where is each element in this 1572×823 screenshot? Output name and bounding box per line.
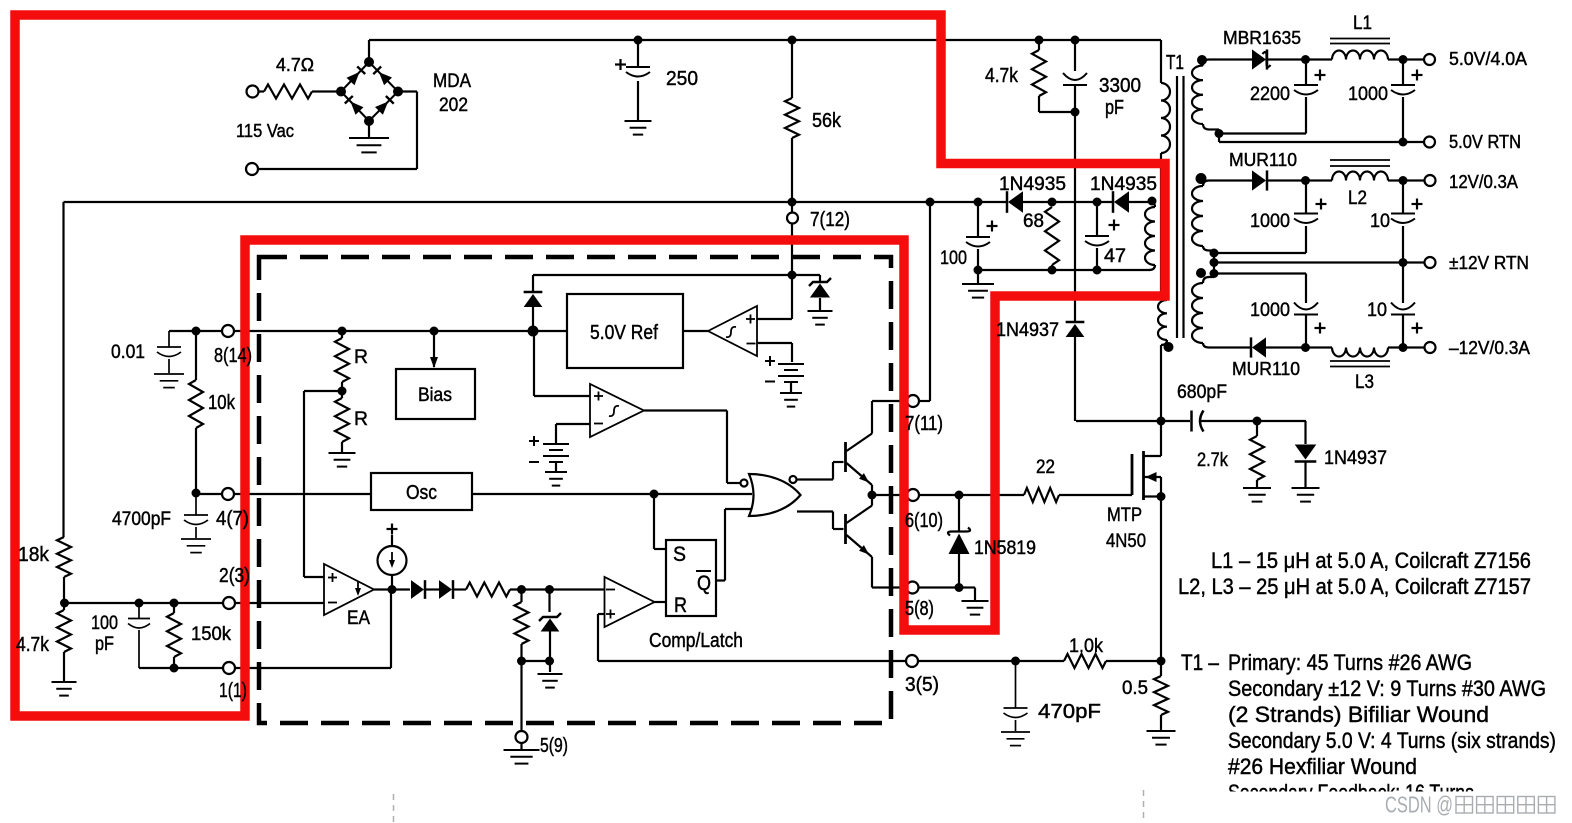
svg-text:2200: 2200 bbox=[1250, 84, 1290, 105]
svg-text:10: 10 bbox=[1370, 211, 1390, 232]
svg-text:MBR1635: MBR1635 bbox=[1223, 28, 1301, 48]
svg-text:0.5: 0.5 bbox=[1122, 678, 1148, 699]
svg-text:250: 250 bbox=[666, 68, 698, 90]
svg-text:1000: 1000 bbox=[1250, 300, 1290, 321]
svg-text:115 Vac: 115 Vac bbox=[236, 121, 294, 141]
svg-text:1N4937: 1N4937 bbox=[996, 320, 1059, 341]
svg-text:100: 100 bbox=[940, 248, 967, 269]
svg-text:4(7): 4(7) bbox=[216, 508, 249, 530]
svg-text:5.0V Ref: 5.0V Ref bbox=[590, 322, 658, 344]
svg-text:4700pF: 4700pF bbox=[112, 509, 171, 530]
svg-text:8(14): 8(14) bbox=[214, 345, 252, 367]
svg-text:CSDN @: CSDN @ bbox=[1385, 792, 1453, 818]
svg-text:1000: 1000 bbox=[1348, 84, 1388, 105]
svg-text:18k: 18k bbox=[18, 544, 50, 566]
svg-text:22: 22 bbox=[1036, 457, 1055, 478]
svg-text:Osc: Osc bbox=[406, 482, 437, 504]
svg-text:7(11): 7(11) bbox=[905, 413, 943, 435]
svg-text:56k: 56k bbox=[812, 110, 842, 132]
svg-text:5(8): 5(8) bbox=[905, 598, 934, 620]
svg-text:150k: 150k bbox=[191, 624, 231, 645]
svg-text:MUR110: MUR110 bbox=[1232, 359, 1300, 379]
svg-text:10k: 10k bbox=[208, 392, 236, 414]
svg-text:68: 68 bbox=[1023, 211, 1044, 232]
svg-text:(2 Strands) Bifiliar Wound: (2 Strands) Bifiliar Wound bbox=[1228, 702, 1489, 727]
svg-text:6(10): 6(10) bbox=[905, 510, 943, 532]
svg-text:Primary: 45 Turns #26 AWG: Primary: 45 Turns #26 AWG bbox=[1228, 650, 1472, 675]
svg-text:1(1): 1(1) bbox=[219, 680, 247, 702]
svg-text:1000: 1000 bbox=[1250, 211, 1290, 232]
svg-text:47: 47 bbox=[1104, 246, 1126, 267]
svg-text:Comp/Latch: Comp/Latch bbox=[649, 630, 743, 652]
svg-text:3(5): 3(5) bbox=[905, 674, 939, 696]
svg-text:Q: Q bbox=[697, 572, 711, 595]
svg-text:R: R bbox=[354, 347, 368, 368]
svg-text:EA: EA bbox=[347, 608, 370, 629]
svg-text:7(12): 7(12) bbox=[810, 209, 850, 231]
svg-text:470pF: 470pF bbox=[1038, 701, 1101, 723]
svg-text:Secondary 5.0 V: 4 Turns (six: Secondary 5.0 V: 4 Turns (six strands) bbox=[1228, 728, 1556, 753]
svg-text:L3: L3 bbox=[1355, 372, 1374, 393]
svg-text:4N50: 4N50 bbox=[1106, 531, 1146, 552]
svg-text:0.01: 0.01 bbox=[111, 342, 145, 363]
svg-text:5.0V RTN: 5.0V RTN bbox=[1449, 132, 1521, 152]
svg-text:L1 – 15 μH at 5.0 A, Coilcraf: L1 – 15 μH at 5.0 A, Coilcraft Z7156 bbox=[1211, 548, 1531, 573]
svg-text:–12V/0.3A: –12V/0.3A bbox=[1449, 338, 1530, 358]
svg-text:pF: pF bbox=[1105, 97, 1124, 119]
svg-text:±12V RTN: ±12V RTN bbox=[1449, 253, 1529, 273]
svg-text:#26 Hexfiliar Wound: #26 Hexfiliar Wound bbox=[1228, 754, 1417, 779]
svg-text:10: 10 bbox=[1367, 300, 1387, 321]
svg-text:4.7Ω: 4.7Ω bbox=[276, 55, 314, 75]
svg-text:S: S bbox=[673, 543, 686, 566]
svg-text:5(9): 5(9) bbox=[540, 735, 568, 757]
svg-text:R: R bbox=[354, 409, 368, 430]
svg-text:MTP: MTP bbox=[1107, 505, 1142, 526]
svg-text:1.0k: 1.0k bbox=[1069, 636, 1103, 657]
svg-text:1N4935: 1N4935 bbox=[1090, 174, 1157, 195]
svg-text:T1: T1 bbox=[1166, 52, 1184, 74]
svg-text:202: 202 bbox=[439, 95, 468, 116]
svg-text:680pF: 680pF bbox=[1177, 382, 1227, 403]
svg-text:pF: pF bbox=[95, 634, 114, 655]
svg-text:MUR110: MUR110 bbox=[1229, 150, 1297, 170]
svg-text:L1: L1 bbox=[1353, 13, 1372, 34]
svg-text:R: R bbox=[674, 594, 687, 617]
svg-text:2(3): 2(3) bbox=[219, 565, 250, 587]
svg-text:1N4937: 1N4937 bbox=[1324, 448, 1387, 469]
svg-text:3300: 3300 bbox=[1099, 75, 1141, 97]
svg-text:Secondary ±12 V: 9 Turns #30 A: Secondary ±12 V: 9 Turns #30 AWG bbox=[1228, 676, 1546, 701]
svg-text:4.7k: 4.7k bbox=[985, 65, 1019, 87]
svg-text:4.7k: 4.7k bbox=[16, 634, 50, 656]
svg-text:L2: L2 bbox=[1348, 188, 1367, 209]
svg-text:MDA: MDA bbox=[433, 71, 471, 92]
svg-text:5.0V/4.0A: 5.0V/4.0A bbox=[1449, 49, 1527, 69]
svg-text:100: 100 bbox=[91, 613, 118, 634]
svg-text:1N5819: 1N5819 bbox=[974, 538, 1036, 559]
svg-text:1N4935: 1N4935 bbox=[999, 174, 1066, 195]
svg-text:2.7k: 2.7k bbox=[1197, 450, 1228, 471]
svg-text:Bias: Bias bbox=[418, 385, 452, 406]
svg-text:12V/0.3A: 12V/0.3A bbox=[1449, 172, 1518, 192]
svg-text:T1 –: T1 – bbox=[1181, 650, 1220, 675]
svg-text:L2, L3 – 25 μH at 5.0 A, Coil: L2, L3 – 25 μH at 5.0 A, Coilcraft Z7157 bbox=[1178, 574, 1531, 599]
